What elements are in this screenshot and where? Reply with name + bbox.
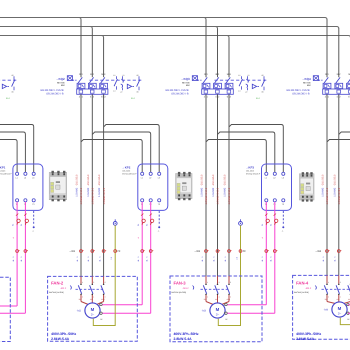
svg-text:.22: .22 — [120, 90, 123, 93]
svg-text:T3: T3 — [32, 203, 34, 206]
svg-text:L2: L2 — [273, 177, 275, 180]
svg-text:1.5MM2: 1.5MM2 — [212, 187, 215, 197]
svg-text:5/M: 5/M — [307, 84, 311, 87]
svg-text:4L: 4L — [212, 259, 215, 261]
svg-text:4L: 4L — [87, 259, 90, 261]
svg-text:4L: 4L — [322, 259, 325, 261]
svg-text:M: M — [91, 307, 95, 312]
svg-text:3~: 3~ — [91, 313, 95, 317]
svg-text:CBL.MAX: CBL.MAX — [0, 170, 6, 173]
svg-text:3L2: 3L2 — [90, 73, 95, 76]
svg-text:-2U1 B5.0: -2U1 B5.0 — [98, 174, 101, 186]
svg-text:3L2: 3L2 — [215, 73, 220, 76]
svg-text:T3: T3 — [282, 203, 284, 206]
svg-text:5/M: 5/M — [186, 84, 190, 87]
svg-text:.95: .95 — [11, 74, 14, 77]
svg-text:5: 5 — [105, 281, 106, 284]
svg-text:.96: .96 — [261, 90, 264, 93]
svg-text:3L2: 3L2 — [337, 73, 342, 76]
svg-text:1.5MM2-BK5.0: 1.5MM2-BK5.0 — [228, 187, 231, 204]
svg-text:1: 1 — [207, 281, 208, 284]
svg-text:→KQ3: →KQ3 — [181, 77, 191, 81]
svg-text:1L1: 1L1 — [204, 73, 209, 76]
svg-text:.95: .95 — [261, 74, 264, 77]
svg-text:-2U1 B5.0: -2U1 B5.0 — [87, 174, 90, 186]
svg-text:1L1: 1L1 — [79, 73, 84, 76]
svg-text:→W2: →W2 — [69, 250, 76, 253]
svg-text:1.5MM2-BK5.0: 1.5MM2-BK5.0 — [326, 187, 329, 204]
svg-text:-2U1 B5.0: -2U1 B5.0 — [224, 174, 227, 186]
svg-text:1.5MM2: 1.5MM2 — [76, 187, 79, 197]
svg-text:2: 2 — [207, 296, 208, 299]
svg-text:ENTSQ MH226 P: ENTSQ MH226 P — [122, 172, 137, 175]
svg-text:FAN-3: FAN-3 — [174, 281, 187, 286]
svg-text:.95: .95 — [136, 74, 139, 77]
svg-text:1.5MM2-BK5.0: 1.5MM2-BK5.0 — [217, 187, 220, 204]
svg-text:5: 5 — [201, 257, 204, 258]
svg-text:5L3: 5L3 — [227, 73, 232, 76]
svg-text:5: 5 — [212, 257, 215, 258]
svg-text:2: 2 — [82, 296, 83, 299]
svg-text:GB.3M.DB2-I-B: GB.3M.DB2-I-B — [46, 92, 64, 95]
svg-text:PE: PE — [243, 250, 247, 253]
svg-text:.21: .21 — [247, 74, 250, 77]
svg-text:3: 3 — [340, 281, 341, 284]
svg-text:6W1: 6W1 — [101, 298, 105, 301]
svg-text:2: 2 — [328, 296, 329, 299]
svg-text:L1: L1 — [265, 177, 267, 180]
svg-text:5: 5 — [261, 257, 264, 258]
svg-text:M: M — [216, 307, 220, 312]
svg-text:4: 4 — [340, 296, 341, 299]
svg-text:┴: ┴ — [31, 230, 34, 233]
svg-text:5: 5 — [76, 257, 79, 258]
svg-text:L2: L2 — [149, 177, 151, 180]
svg-text:6: 6 — [230, 296, 231, 299]
svg-text:-2U1 B5.0: -2U1 B5.0 — [322, 174, 325, 186]
svg-text:1: 1 — [328, 281, 329, 284]
svg-text:L2: L2 — [24, 177, 26, 180]
svg-text:1.5MM2-BK5.0: 1.5MM2-BK5.0 — [80, 187, 83, 204]
svg-text:.96: .96 — [136, 90, 139, 93]
svg-text:400V-3Ph.-50Hz: 400V-3Ph.-50Hz — [296, 332, 321, 336]
svg-text:5: 5 — [12, 257, 15, 258]
svg-text:4: 4 — [219, 296, 220, 299]
svg-text:5: 5 — [87, 257, 90, 258]
svg-text:-M4.2: -M4.2 — [305, 287, 312, 290]
svg-text:2.5: 2.5 — [110, 257, 113, 260]
svg-text:→KQ2: →KQ2 — [56, 77, 66, 81]
svg-text:.13: .13 — [113, 74, 116, 77]
svg-text:5/M: 5/M — [61, 84, 65, 87]
svg-text:400V-3Ph.-50Hz: 400V-3Ph.-50Hz — [174, 332, 199, 336]
svg-text:5: 5 — [334, 257, 337, 258]
svg-text:N5-A2B: N5-A2B — [182, 81, 190, 84]
svg-text:FAN-4: FAN-4 — [296, 281, 309, 286]
svg-text:3~: 3~ — [216, 313, 220, 317]
svg-text:.22: .22 — [245, 90, 248, 93]
svg-text:4L: 4L — [270, 259, 273, 261]
svg-text:1.5MM2-BK5.0: 1.5MM2-BK5.0 — [338, 187, 341, 204]
svg-text:2.5: 2.5 — [235, 257, 238, 260]
svg-text:L1: L1 — [141, 177, 143, 180]
svg-text:GB.3M.DB2-I-B: GB.3M.DB2-I-B — [292, 92, 310, 95]
svg-text:-2U1 B5.0: -2U1 B5.0 — [333, 174, 336, 186]
svg-text:1.5MM2: 1.5MM2 — [224, 187, 227, 197]
svg-text:┴: ┴ — [281, 230, 284, 233]
svg-text:ENTSQ MH226 P: ENTSQ MH226 P — [246, 172, 261, 175]
svg-text:BACKW [ΔL/S/B]: BACKW [ΔL/S/B] — [49, 291, 64, 294]
svg-text:5: 5 — [20, 257, 23, 258]
svg-text:→KP1: →KP1 — [0, 165, 6, 169]
svg-text:CBL.MAX: CBL.MAX — [122, 170, 131, 173]
svg-text:5: 5 — [230, 281, 231, 284]
svg-text:-M3: -M3 — [202, 310, 207, 313]
svg-text:4L: 4L — [146, 259, 149, 261]
svg-text:4L: 4L — [201, 259, 204, 261]
svg-text:→KP2: →KP2 — [122, 165, 131, 169]
svg-text:4L: 4L — [20, 259, 23, 261]
svg-text:L3: L3 — [32, 177, 34, 180]
svg-text:.14: .14 — [238, 90, 241, 93]
svg-text:2.8kW-5.4A: 2.8kW-5.4A — [51, 337, 70, 341]
svg-text:BACKW [ΔL/S/B]: BACKW [ΔL/S/B] — [294, 291, 309, 294]
svg-text:4L: 4L — [261, 259, 264, 261]
svg-text:ENTSQ MH226 P: ENTSQ MH226 P — [0, 172, 12, 175]
svg-text:.13: .13 — [238, 74, 241, 77]
svg-text:4L: 4L — [334, 259, 337, 261]
svg-text:6: 6 — [105, 296, 106, 299]
svg-text:1.5MM2: 1.5MM2 — [333, 187, 336, 197]
svg-text:5: 5 — [137, 257, 140, 258]
svg-text:CBL.MAX: CBL.MAX — [246, 170, 255, 173]
svg-text:5: 5 — [98, 257, 101, 258]
svg-text:L1: L1 — [16, 177, 18, 180]
svg-text:4L: 4L — [12, 259, 15, 261]
svg-text:→KP3: →KP3 — [246, 165, 255, 169]
svg-text:1.5MM2: 1.5MM2 — [87, 187, 90, 197]
svg-text:5: 5 — [146, 257, 149, 258]
svg-text:4: 4 — [93, 296, 94, 299]
svg-text:400V-3Ph.-50Hz: 400V-3Ph.-50Hz — [51, 332, 76, 336]
svg-text:→W4: →W4 — [315, 250, 322, 253]
svg-text:L3: L3 — [282, 177, 284, 180]
svg-text:1.5MM2: 1.5MM2 — [201, 187, 204, 197]
svg-text:3: 3 — [93, 281, 94, 284]
svg-text:4L: 4L — [137, 259, 140, 261]
svg-text:5: 5 — [270, 257, 273, 258]
svg-text:1.5MM2: 1.5MM2 — [322, 187, 325, 197]
svg-text:N5-A2B: N5-A2B — [57, 81, 65, 84]
svg-text:4L: 4L — [76, 259, 79, 261]
svg-text:PE: PE — [117, 250, 121, 253]
svg-text:.21: .21 — [122, 74, 125, 77]
svg-text:FAN-2: FAN-2 — [51, 281, 64, 286]
svg-text:L3: L3 — [158, 177, 160, 180]
svg-text:6W1: 6W1 — [227, 298, 231, 301]
svg-text:5L3: 5L3 — [101, 73, 106, 76]
svg-text:-M3.2: -M3.2 — [183, 287, 190, 290]
svg-text:2.8kW-5.4A: 2.8kW-5.4A — [296, 337, 315, 341]
svg-text:-2U1 B5.0: -2U1 B5.0 — [212, 174, 215, 186]
svg-text:1.5MM2-BK5.0: 1.5MM2-BK5.0 — [92, 187, 95, 204]
svg-text:-M2: -M2 — [77, 310, 82, 313]
svg-text:3: 3 — [219, 281, 220, 284]
svg-text:-M2.2: -M2.2 — [60, 287, 67, 290]
svg-text:1: 1 — [82, 281, 83, 284]
svg-text:5: 5 — [322, 257, 325, 258]
svg-text:-2U1 B5.0: -2U1 B5.0 — [76, 174, 79, 186]
svg-text:T3: T3 — [158, 203, 160, 206]
svg-text:-M4: -M4 — [324, 309, 329, 312]
svg-text:1L1: 1L1 — [325, 73, 330, 76]
svg-text:1.5MM2: 1.5MM2 — [98, 187, 101, 197]
svg-text:.96: .96 — [11, 90, 14, 93]
svg-text:M: M — [338, 306, 342, 311]
svg-text:BACKW [ΔL/S/B]: BACKW [ΔL/S/B] — [172, 291, 187, 294]
svg-text:→KQ4: →KQ4 — [302, 77, 312, 81]
svg-text:┴: ┴ — [157, 230, 160, 233]
svg-text:1.5MM2-BK5.0: 1.5MM2-BK5.0 — [205, 187, 208, 204]
svg-text:2.8kW-5.4A: 2.8kW-5.4A — [174, 337, 193, 341]
svg-text:5: 5 — [224, 257, 227, 258]
svg-text:GB.3M.DB2-I-B: GB.3M.DB2-I-B — [171, 92, 189, 95]
svg-text:.14: .14 — [113, 90, 116, 93]
svg-text:-2U1 B5.0: -2U1 B5.0 — [201, 174, 204, 186]
svg-text:→W3: →W3 — [194, 250, 201, 253]
svg-text:3~: 3~ — [338, 312, 342, 316]
svg-text:4L: 4L — [224, 259, 227, 261]
svg-text:4L: 4L — [98, 259, 101, 261]
svg-text:N5-A2B: N5-A2B — [303, 81, 311, 84]
svg-text:1.5MM2-BK5.0: 1.5MM2-BK5.0 — [103, 187, 106, 204]
